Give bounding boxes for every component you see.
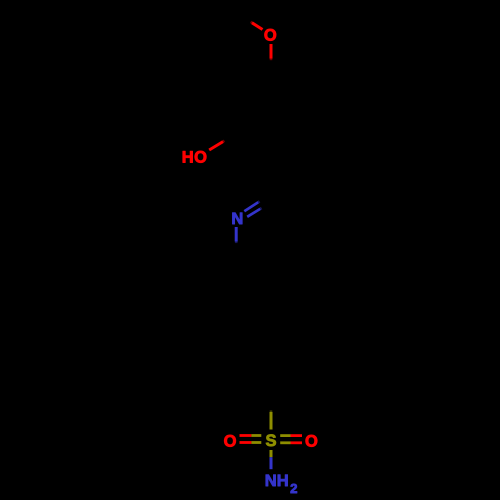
bond O-C(aryl) methoxy, red half bbox=[270, 44, 273, 59]
bond N-CH2, blue half bbox=[235, 227, 238, 242]
svg-text:O: O bbox=[264, 27, 277, 45]
svg-text:N: N bbox=[265, 472, 277, 490]
svg-text:H: H bbox=[277, 472, 289, 490]
wire: N-CH2-CH2 linker (black, invisible) bbox=[236, 256, 271, 315]
wire: invisible carbon skeleton (black C-C bonds on black background) bbox=[236, 77, 305, 394]
bond C=N double bond, blue halves bbox=[244, 201, 261, 216]
wire: aryl to imine CH bond (black, invisible) bbox=[271, 155, 272, 195]
bond O-C(aryl) phenol, red half bbox=[209, 142, 223, 150]
svg-text:N: N bbox=[231, 210, 243, 228]
svg-text:O: O bbox=[194, 149, 207, 167]
wire: methoxyphenol benzene ring (black, invisible) bbox=[237, 77, 305, 155]
bond CH3-O (methoxy), red half bbox=[252, 23, 263, 30]
atom NH2 sulfonamide amine bbox=[265, 472, 298, 496]
svg-text:O: O bbox=[305, 433, 318, 451]
svg-text:2: 2 bbox=[290, 481, 297, 496]
bond S=O left double bond bbox=[240, 436, 262, 443]
wire: benzenesulfonamide ring (black, invisible) bbox=[237, 315, 305, 394]
bond C(aryl)-S, olive half bbox=[270, 412, 273, 430]
atom HO phenol hydroxyl bbox=[182, 149, 207, 167]
bond S-N, olive half then blue half bbox=[270, 450, 273, 457]
svg-text:S: S bbox=[265, 432, 276, 450]
svg-text:H: H bbox=[182, 149, 194, 167]
svg-text:O: O bbox=[224, 433, 237, 451]
bond S=O right double bond bbox=[280, 436, 302, 443]
